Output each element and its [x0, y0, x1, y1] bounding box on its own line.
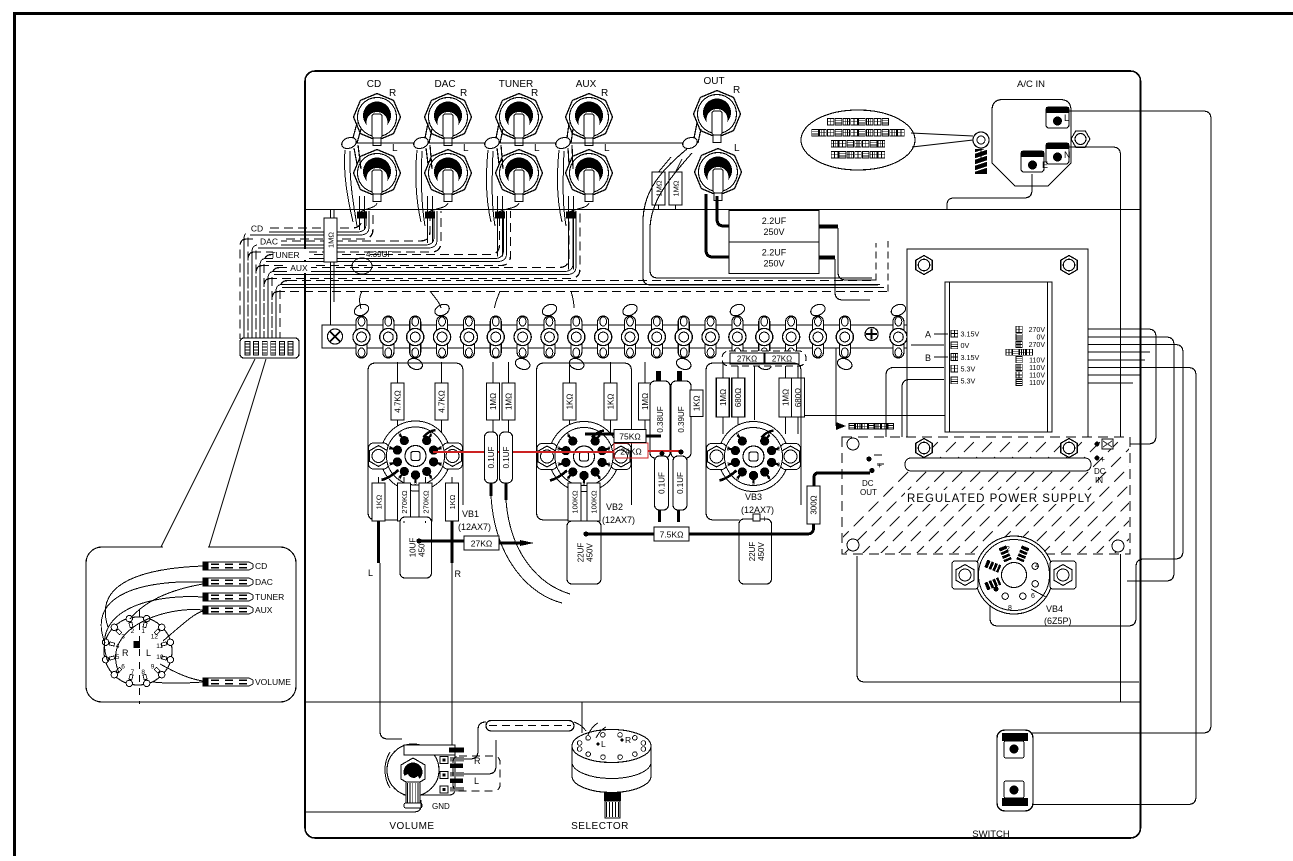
wire DAC L tab curve: [427, 203, 448, 216]
svg-text:100KΩ: 100KΩ: [571, 490, 580, 514]
wire AUX L tab curve: [568, 203, 589, 216]
svg-text:22UF: 22UF: [748, 542, 757, 562]
svg-text:5: 5: [116, 654, 120, 661]
svg-text:R: R: [601, 88, 608, 99]
strip lug: [732, 316, 743, 358]
chassis outline: [305, 71, 1141, 838]
svg-text:27KΩ: 27KΩ: [737, 355, 757, 364]
svg-text:7: 7: [557, 463, 560, 469]
svg-text:L: L: [474, 776, 479, 786]
wire 27K leads: [418, 541, 520, 543]
svg-text:TUNER: TUNER: [270, 250, 299, 260]
RCA jack TUNER R: [496, 88, 543, 146]
volume potentiometer: [385, 744, 464, 808]
resistor 1M out a: [652, 172, 665, 205]
tube socket VB4: [952, 536, 1076, 614]
svg-text:11: 11: [156, 643, 163, 650]
svg-text:10: 10: [156, 654, 164, 661]
svg-text:R: R: [460, 88, 467, 99]
transformer primary labels: [951, 330, 958, 337]
svg-text:1: 1: [141, 628, 145, 635]
resistor 1KΩ: [372, 483, 385, 521]
ground lug: [554, 136, 572, 151]
capacitor 2.2UF 250V upper: [729, 211, 819, 243]
svg-text:OUT: OUT: [703, 76, 724, 87]
svg-text:7: 7: [727, 463, 730, 469]
svg-text:9: 9: [567, 433, 570, 439]
svg-text:450V: 450V: [757, 541, 766, 560]
wire: [737, 362, 739, 434]
strip screw right: [865, 328, 878, 341]
resistor 100KΩ: [587, 483, 600, 521]
resistor 1MΩ: [639, 383, 652, 420]
wire selector drop: [581, 702, 583, 733]
svg-text:L: L: [463, 143, 469, 154]
svg-text:7.5KΩ: 7.5KΩ: [660, 530, 684, 540]
solder tab: [621, 302, 639, 318]
wire transformer sec 4 to switch: [1032, 368, 1196, 805]
svg-text:1KΩ: 1KΩ: [375, 494, 384, 509]
solder tab: [809, 302, 827, 318]
AC hex nut: [1071, 131, 1090, 147]
wire CD pair drop: [360, 196, 365, 230]
svg-text:2: 2: [439, 446, 442, 452]
wire: [722, 362, 724, 434]
svg-text:1KΩ: 1KΩ: [693, 395, 702, 411]
wire DAC pair drop: [428, 196, 433, 243]
svg-text:1KΩ: 1KΩ: [448, 494, 457, 509]
svg-text:300Ω: 300Ω: [810, 495, 819, 514]
rotary wafer: [102, 610, 173, 704]
svg-text:+: +: [762, 514, 767, 524]
transformer bolt over hatch: [916, 439, 932, 458]
resistor 1KΩ: [604, 383, 617, 420]
svg-text:6: 6: [736, 476, 739, 482]
capacitor 22UF 450V (VB3): [739, 519, 772, 584]
capacitor 0.1UF a: [485, 432, 498, 483]
wire TUNER pair drop: [498, 196, 503, 257]
transformer left wires: [874, 345, 944, 477]
power switch: [997, 730, 1033, 811]
svg-text:1MΩ: 1MΩ: [719, 389, 728, 406]
svg-text:270KΩ: 270KΩ: [422, 490, 431, 514]
wire 1M input leads: [331, 210, 335, 325]
svg-text:L: L: [392, 143, 398, 154]
callout ellipse note: [801, 110, 915, 170]
volume dashed box: [453, 756, 500, 791]
svg-text:5: 5: [583, 481, 586, 487]
RCA jack TUNER L: [496, 143, 543, 202]
svg-text:OUT: OUT: [860, 488, 877, 497]
AC terminal E: [1021, 151, 1048, 172]
sleeve TUNER: [495, 212, 505, 219]
svg-text:4: 4: [430, 475, 433, 481]
svg-text:22UF: 22UF: [577, 543, 586, 563]
tube socket VB1: [369, 421, 463, 491]
wire TUNER lug curves: [486, 150, 495, 226]
cap top stubs: [656, 371, 661, 382]
resistor 680Ω: [792, 378, 805, 417]
wire loop around socket: [537, 363, 632, 512]
svg-text:DAC: DAC: [434, 79, 455, 90]
wire: [441, 362, 443, 436]
resistor 4.7KΩ: [391, 383, 404, 420]
resistor 1M (input): [324, 218, 337, 262]
svg-text:6: 6: [398, 475, 401, 481]
wire AUX pair drop: [569, 196, 574, 270]
ground bus wire y=143: [349, 142, 690, 144]
cable bundle CD dashed: [240, 211, 373, 339]
wire loop around socket: [706, 363, 801, 512]
svg-text:1MΩ: 1MΩ: [672, 180, 681, 196]
ground lug: [483, 136, 501, 151]
solder tab: [728, 302, 746, 318]
wire CD jack straps: [353, 123, 361, 143]
wire transformer sec 2: [1088, 337, 1174, 581]
svg-text:680Ω: 680Ω: [734, 388, 743, 407]
wire chassis horizontal y=209: [305, 209, 1141, 211]
psu white strip under transformer: [905, 458, 1091, 471]
svg-text:+: +: [877, 460, 882, 470]
solder tab: [755, 357, 773, 372]
sleeve CD: [357, 212, 367, 219]
wire chassis horizontal y=702: [305, 701, 1141, 703]
svg-text:CD: CD: [251, 224, 263, 234]
svg-text:SELECTOR: SELECTOR: [571, 821, 629, 832]
svg-text:SWITCH: SWITCH: [972, 829, 1010, 840]
svg-text:0.1UF: 0.1UF: [487, 447, 496, 469]
svg-text:27KΩ: 27KΩ: [471, 539, 492, 549]
svg-text:0.1UF: 0.1UF: [676, 472, 685, 494]
svg-text:L: L: [146, 648, 151, 658]
capacitor 2.2UF 250V lower: [729, 242, 819, 274]
gnd wire to chassis: [306, 800, 421, 812]
svg-text:L: L: [604, 143, 610, 154]
label TUNER cable: [273, 249, 309, 260]
svg-text:L: L: [1064, 113, 1069, 123]
svg-text:VB1: VB1: [462, 509, 479, 519]
svg-text:8: 8: [389, 446, 392, 452]
resistor 1K: [690, 390, 703, 417]
svg-text:3: 3: [777, 463, 780, 469]
wire: [508, 362, 510, 436]
solder tab: [836, 357, 854, 372]
svg-text:5.3V: 5.3V: [961, 365, 976, 374]
wire: [610, 362, 612, 436]
strip lug: [625, 316, 636, 358]
svg-text:1MΩ: 1MΩ: [655, 180, 664, 196]
svg-text:2.2UF: 2.2UF: [762, 216, 787, 226]
resistor 1MΩ: [779, 378, 792, 417]
svg-text:L: L: [734, 143, 740, 154]
bubble cables: [203, 562, 253, 570]
wire loop around socket: [368, 363, 463, 512]
resistor 300: [807, 486, 820, 524]
svg-text:0.1UF: 0.1UF: [658, 472, 667, 494]
svg-text:1KΩ: 1KΩ: [607, 394, 616, 410]
wires VB1 to parts: [379, 477, 453, 560]
cap stubs: [660, 510, 679, 522]
wire OUT jack straps: [694, 123, 701, 143]
resistor 27K: [765, 353, 799, 364]
svg-text:7: 7: [131, 669, 135, 676]
DC IN: [1102, 439, 1113, 449]
strip lug: [705, 316, 716, 358]
svg-text:8: 8: [727, 446, 730, 452]
AC terminal N: [1046, 143, 1071, 164]
wire: [397, 362, 399, 436]
strip lug: [759, 316, 770, 358]
wire CD L tab curve: [359, 203, 377, 216]
RCA jack CD L: [354, 143, 401, 202]
label regulated power supply: [905, 490, 1090, 504]
sleeve AUX: [566, 212, 576, 219]
wire CD lug curves: [344, 150, 357, 226]
svg-text:5: 5: [414, 481, 417, 487]
red wire VB1-VB2: [433, 451, 614, 453]
capacitor 0.38UF: [650, 381, 670, 458]
L R shielded leads: [379, 521, 453, 563]
svg-text:250V: 250V: [763, 259, 784, 269]
svg-text:5: 5: [752, 481, 755, 487]
wire: [569, 362, 571, 436]
label DAC cable: [257, 236, 281, 247]
cable bundle DAC dashed: [248, 211, 441, 339]
resistor 1MΩ: [487, 383, 500, 420]
svg-text:1MΩ: 1MΩ: [782, 389, 791, 406]
strip lug: [812, 316, 823, 358]
svg-text:8: 8: [141, 669, 145, 676]
svg-text:1MΩ: 1MΩ: [505, 393, 514, 410]
svg-text:110V: 110V: [1029, 365, 1045, 372]
AC ground lug: [973, 132, 989, 148]
svg-text:6: 6: [121, 663, 125, 670]
svg-text:CD: CD: [367, 79, 381, 90]
cap 4.39UF marker: [352, 258, 372, 274]
svg-text:(12AX7): (12AX7): [602, 515, 635, 525]
wire AC L run: [1032, 111, 1211, 733]
solder tab: [406, 357, 424, 372]
svg-text:R: R: [122, 648, 129, 658]
capacitor 0.1UF c: [655, 456, 669, 510]
resistor 100KΩ: [568, 483, 581, 521]
svg-text:AUX: AUX: [255, 605, 273, 615]
svg-text:6: 6: [1031, 593, 1035, 600]
svg-text:L: L: [601, 739, 606, 749]
svg-text:270V: 270V: [1029, 327, 1046, 334]
svg-text:7: 7: [389, 462, 392, 468]
resistor 1M out b: [669, 172, 682, 205]
svg-text:6: 6: [567, 476, 570, 482]
detail bubble: [86, 547, 296, 702]
wire: [644, 362, 646, 436]
svg-text:R: R: [389, 88, 396, 99]
svg-text:L: L: [534, 143, 540, 154]
svg-text:DAC: DAC: [255, 577, 273, 587]
svg-text:VOLUME: VOLUME: [255, 677, 291, 687]
svg-text:24KΩ: 24KΩ: [620, 447, 641, 457]
svg-text:9: 9: [736, 433, 739, 439]
power transformer: [907, 249, 1088, 465]
strip lug: [356, 316, 367, 358]
svg-text:4: 4: [768, 476, 771, 482]
wire transformer sec 1: [1088, 329, 1156, 444]
svg-text:1MΩ: 1MΩ: [641, 393, 650, 410]
strip lug: [463, 316, 474, 358]
svg-text:A: A: [925, 330, 931, 340]
svg-text:3.15V: 3.15V: [961, 330, 980, 339]
svg-text:GND: GND: [432, 802, 450, 811]
svg-text:TUNER: TUNER: [499, 79, 533, 90]
svg-text:AUX: AUX: [290, 263, 308, 273]
thick out cable: [706, 194, 729, 257]
svg-text:0V: 0V: [1036, 335, 1045, 342]
RCA jack DAC R: [425, 88, 472, 146]
svg-text:4.7KΩ: 4.7KΩ: [394, 390, 403, 412]
wire 7.5K run: [585, 524, 814, 534]
capacitor 22UF 450V: [567, 521, 601, 584]
svg-text:L: L: [368, 568, 373, 578]
bubble wires: [101, 566, 203, 683]
red wire to VB3: [648, 450, 681, 452]
RCA jack AUX R: [566, 88, 613, 146]
wire DAC lug curves: [416, 150, 425, 226]
svg-text:3: 3: [439, 462, 442, 468]
svg-text:4: 4: [1035, 563, 1039, 570]
strip lug: [410, 316, 421, 358]
strip lug: [571, 316, 582, 358]
svg-text:A/C IN: A/C IN: [1017, 79, 1045, 90]
svg-text:3: 3: [608, 463, 611, 469]
svg-text:TUNER: TUNER: [255, 592, 284, 602]
svg-text:1: 1: [430, 433, 433, 439]
resistor 27K: [730, 353, 764, 364]
strip lug: [437, 316, 448, 358]
svg-text:N: N: [1064, 150, 1071, 160]
tube socket VB2: [537, 422, 631, 492]
transformer secondary labels: [1016, 326, 1022, 332]
svg-text:1MΩ: 1MΩ: [489, 393, 498, 410]
svg-text:DAC: DAC: [260, 237, 278, 247]
svg-text:4.39UF: 4.39UF: [366, 250, 392, 259]
capacitor 0.1UF b: [500, 432, 513, 483]
svg-text:B: B: [925, 353, 931, 363]
svg-text:DC: DC: [1094, 467, 1106, 476]
wire AC N run: [1069, 147, 1121, 702]
wires out resistors: [659, 157, 683, 210]
strip lug: [598, 316, 609, 358]
svg-text:12: 12: [151, 634, 159, 641]
resistor 270KΩ: [419, 483, 432, 521]
resistor 7.5K horizontal: [654, 527, 689, 541]
capacitor 10UF 450V: [400, 517, 432, 578]
svg-text:75KΩ: 75KΩ: [619, 432, 640, 442]
svg-text:VB3: VB3: [745, 492, 762, 502]
solder tab: [889, 302, 907, 318]
svg-text:IN: IN: [1095, 476, 1103, 485]
connector block: [240, 338, 299, 358]
cap leads: [491, 483, 506, 500]
red box 24K: [614, 443, 648, 458]
RCA jack CD R: [354, 88, 401, 146]
svg-text:VB2: VB2: [606, 502, 623, 512]
AC inlet module: [992, 100, 1071, 187]
svg-text:4.7KΩ: 4.7KΩ: [438, 390, 447, 412]
resistor pair 27K 27K dashed outline: [722, 351, 806, 366]
svg-text:4: 4: [598, 476, 601, 482]
RCA jack OUT L: [695, 143, 742, 201]
svg-text:R: R: [531, 88, 538, 99]
DC OUT thick wire: [814, 473, 870, 486]
svg-text:450V: 450V: [586, 542, 595, 561]
svg-text:1KΩ: 1KΩ: [566, 394, 575, 410]
wire: [797, 362, 799, 434]
ground lug: [412, 136, 430, 151]
wire strip to chassis gnd arrow: [835, 348, 837, 426]
solder tab: [568, 357, 586, 372]
label AUX cable: [287, 262, 311, 273]
sleeve DAC: [425, 212, 435, 219]
svg-text:0.1UF: 0.1UF: [502, 447, 511, 469]
strip lug: [893, 316, 904, 358]
svg-text:0.39UF: 0.39UF: [677, 406, 686, 432]
svg-text:0V: 0V: [961, 341, 970, 350]
wire TUNER L tab curve: [497, 203, 519, 216]
svg-text:REGULATED POWER SUPPLY: REGULATED POWER SUPPLY: [907, 493, 1093, 505]
wire psu bottom loop: [857, 556, 1139, 682]
svg-text:DC: DC: [862, 479, 874, 488]
solder tab: [675, 357, 693, 372]
wire: [785, 362, 787, 434]
strip screw left: [328, 329, 343, 344]
strip lug: [383, 316, 394, 358]
svg-text:1MΩ: 1MΩ: [327, 232, 336, 248]
svg-text:2: 2: [777, 446, 780, 452]
svg-text:270KΩ: 270KΩ: [400, 490, 409, 514]
DC OUT: [866, 456, 871, 461]
callout pointer: [911, 133, 973, 147]
svg-text:110V: 110V: [1029, 357, 1045, 364]
RCA jack OUT R: [694, 85, 741, 143]
wire AUX jack straps: [567, 123, 573, 143]
svg-text:AUX: AUX: [576, 79, 597, 90]
svg-text:250V: 250V: [763, 227, 784, 237]
solder tab: [514, 357, 532, 372]
wire TUNER jack straps: [496, 123, 503, 143]
resistor 1MΩ: [716, 378, 729, 417]
svg-text:R: R: [455, 569, 462, 579]
svg-text:+: +: [1100, 454, 1105, 464]
wire L R to volume: [380, 563, 452, 747]
svg-text:1: 1: [768, 433, 771, 439]
wire AUX lug curves: [557, 150, 566, 226]
strip lug: [544, 316, 555, 358]
resistor 75K: [585, 430, 661, 443]
wire strip to VB3: [754, 362, 756, 420]
svg-text:VB4: VB4: [1046, 604, 1063, 614]
out shield pair curves: [643, 149, 878, 285]
svg-text:2.2UF: 2.2UF: [762, 248, 787, 258]
svg-text:9: 9: [151, 663, 155, 670]
label + mark VB3: [753, 514, 760, 521]
RCA jack DAC L: [425, 143, 472, 202]
svg-text:27KΩ: 27KΩ: [772, 355, 792, 364]
strip lug: [839, 316, 850, 358]
svg-text:110V: 110V: [1029, 380, 1045, 387]
label CD cable: [245, 223, 269, 234]
svg-text:0.38UF: 0.38UF: [656, 406, 665, 432]
svg-text:5.3V: 5.3V: [961, 376, 976, 385]
